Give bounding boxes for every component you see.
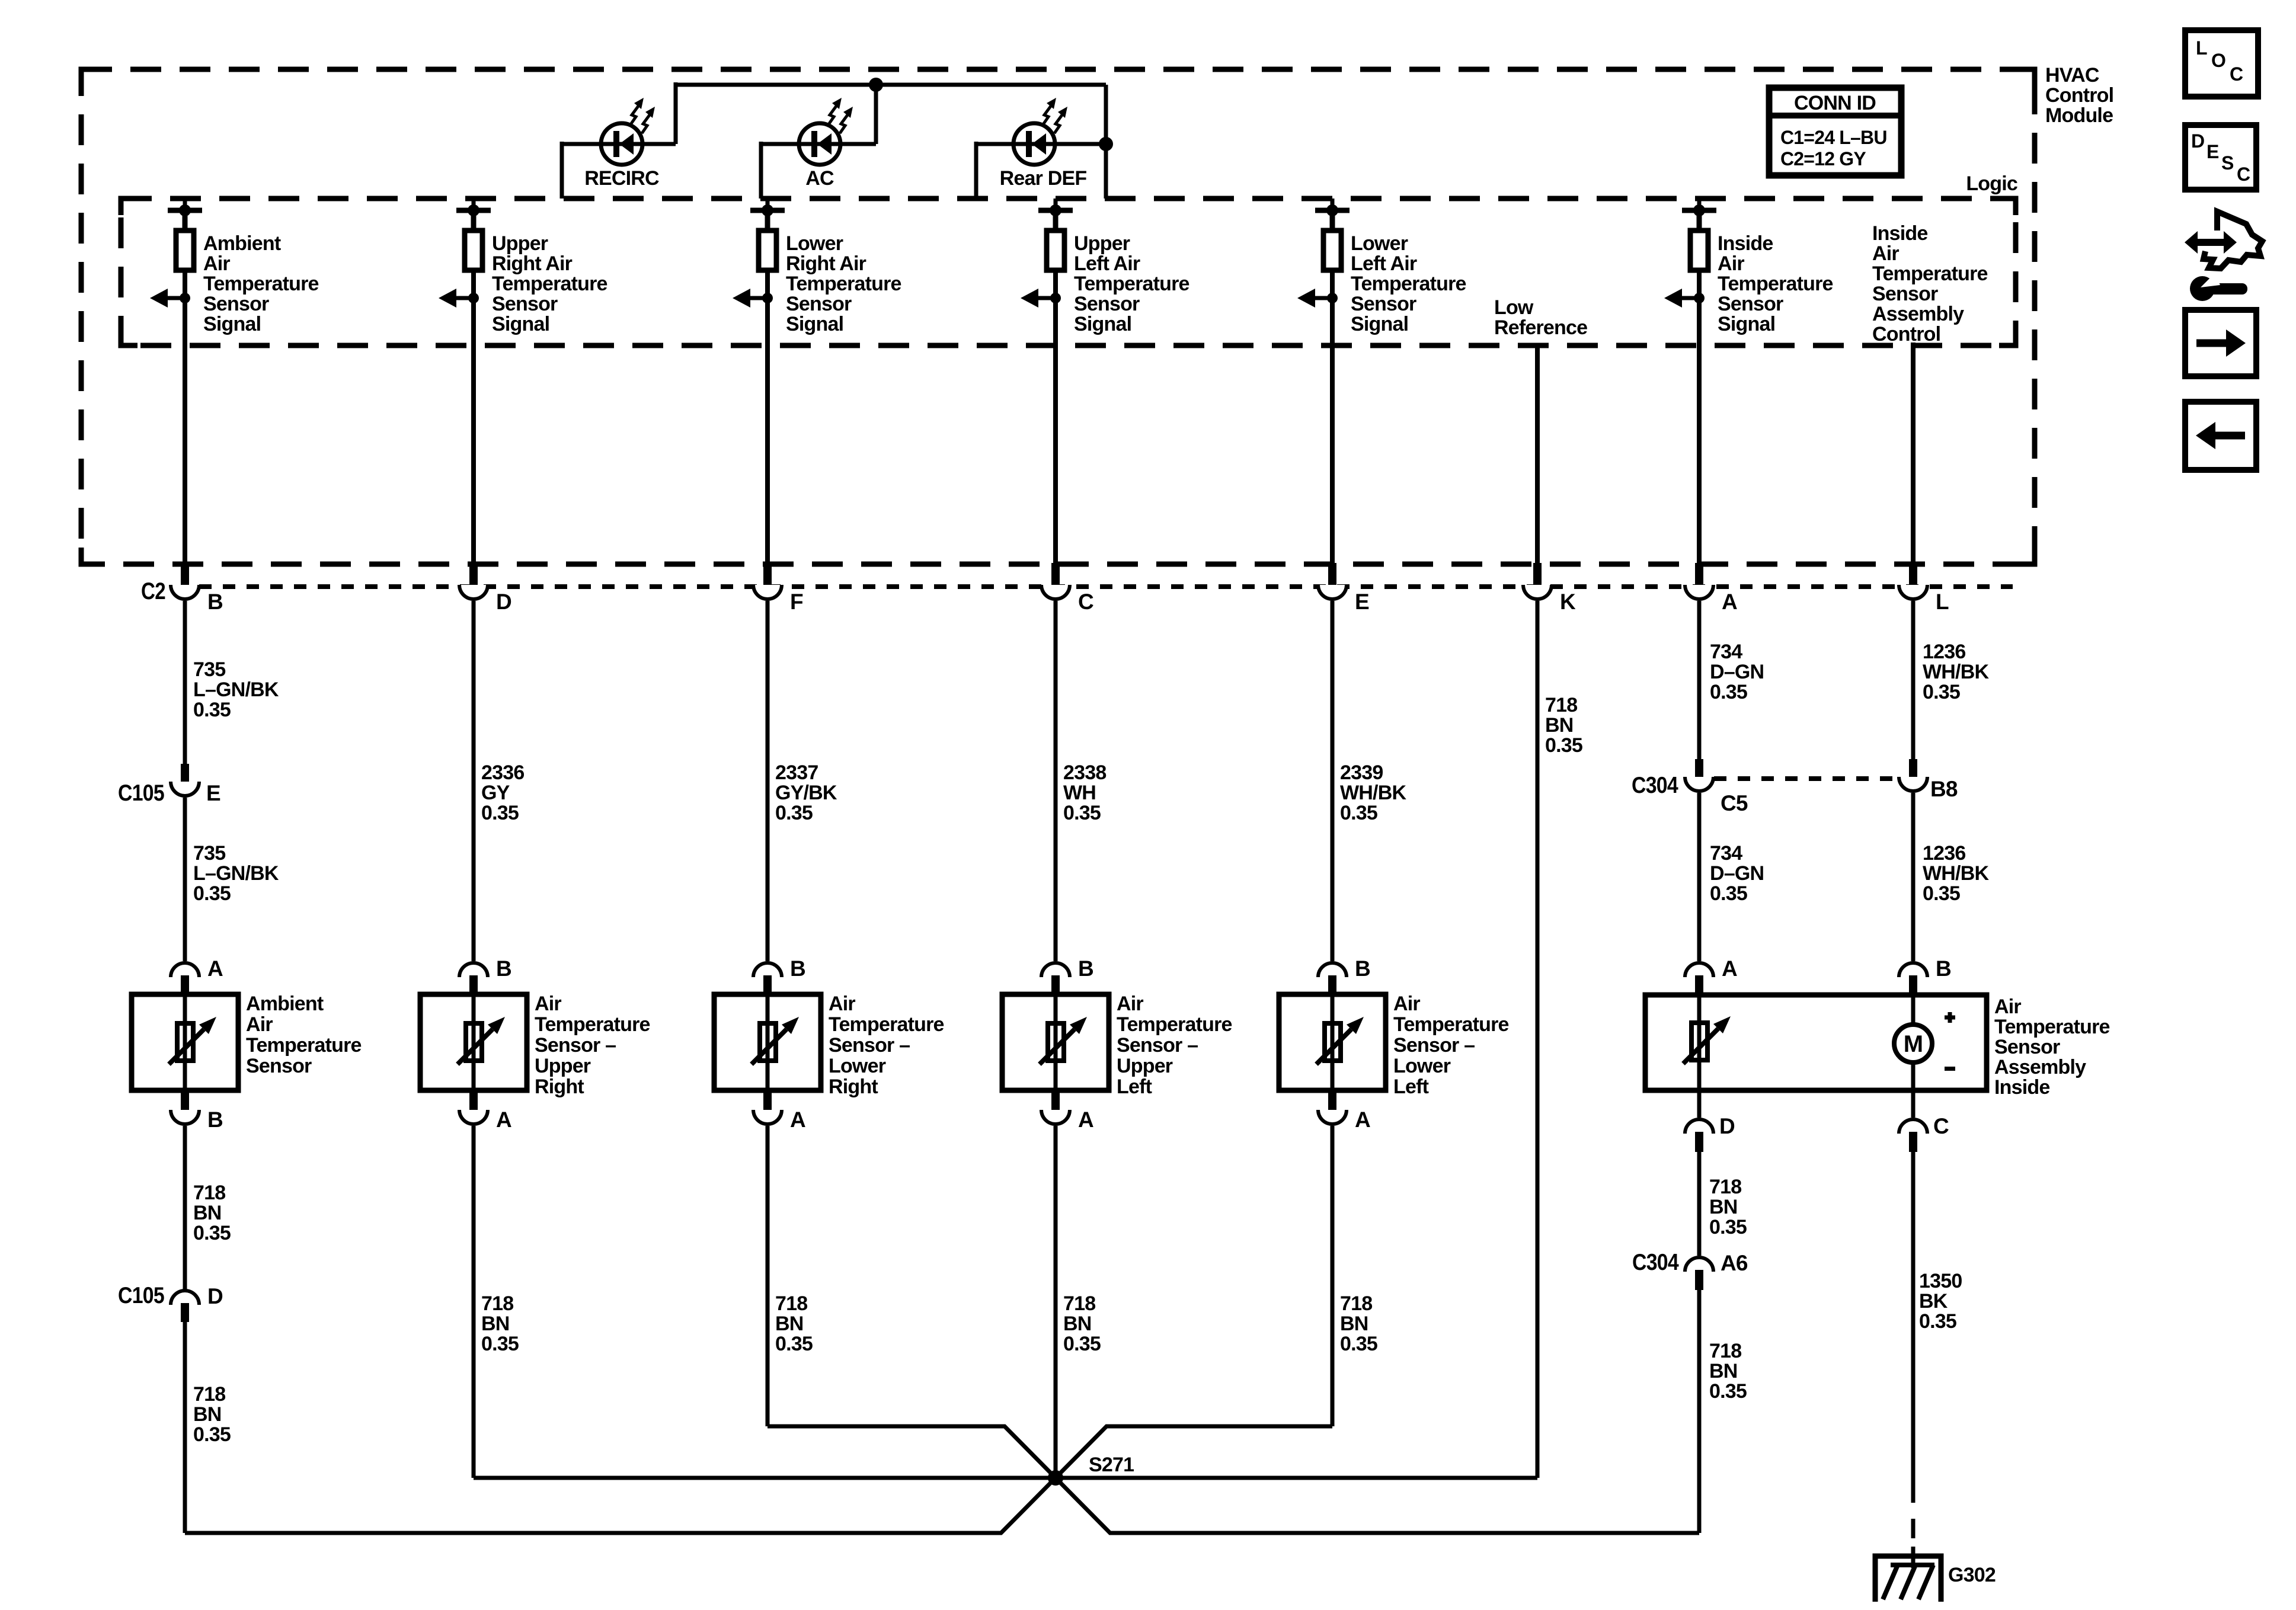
svg-text:Sensor: Sensor <box>1718 293 1783 315</box>
assembly pin C connector <box>1899 1090 1949 1152</box>
svg-text:C: C <box>2230 63 2243 85</box>
wire 1350 BK solid segment <box>1911 1152 1916 1483</box>
svg-text:BN: BN <box>1340 1313 1368 1335</box>
resistor Upper Right Air Temperature Sensor Signal <box>465 231 482 270</box>
AC label <box>805 167 834 190</box>
svg-text:Left: Left <box>1117 1076 1152 1098</box>
wire AC left drop <box>759 142 763 199</box>
junction dot AC riser / top rail <box>869 78 883 92</box>
splice S271 <box>1048 1470 1063 1486</box>
svg-text:Temperature: Temperature <box>1393 1013 1509 1036</box>
wire 1236 upper segment <box>1911 601 1916 759</box>
svg-text:Temperature: Temperature <box>1074 273 1189 295</box>
svg-text:BN: BN <box>481 1313 510 1335</box>
svg-text:Sensor –: Sensor – <box>535 1034 616 1057</box>
Air Temperature Sensor Lower Left box <box>1279 994 1386 1090</box>
svg-text:Inside: Inside <box>1872 222 1927 245</box>
svg-text:GY: GY <box>481 782 510 804</box>
wire 735 lower segment <box>183 798 187 961</box>
svg-text:0.35: 0.35 <box>1709 1380 1747 1403</box>
svg-text:WH/BK: WH/BK <box>1340 782 1406 804</box>
svg-text:Module: Module <box>2045 104 2113 127</box>
svg-text:Upper: Upper <box>1117 1055 1173 1077</box>
wire col2 to S271 (middle-left bus) <box>474 1476 1056 1480</box>
svg-text:O: O <box>2211 50 2225 71</box>
svg-text:Signal: Signal <box>1718 313 1775 335</box>
svg-text:0.35: 0.35 <box>1919 1310 1956 1333</box>
Air Temperature Sensor Assembly Inside pin B connector <box>1899 956 1951 996</box>
svg-text:735: 735 <box>193 842 225 865</box>
wire label 718 BN assembly upper <box>1709 1176 1747 1238</box>
thermistor symbol Air Temperature Sensor Upper Left <box>1040 1017 1087 1064</box>
forward arrow button <box>2185 310 2256 376</box>
wire inside Ambient Air Temperature Sensor <box>183 994 187 1090</box>
svg-text:Upper: Upper <box>535 1055 591 1077</box>
wire inside Air Temperature Sensor Upper Right <box>472 994 476 1090</box>
svg-text:0.35: 0.35 <box>1340 1333 1377 1355</box>
wire inside Air Temperature Sensor Lower Right <box>766 994 770 1090</box>
svg-text:1236: 1236 <box>1923 842 1965 865</box>
wire E column (logic box to module edge) <box>1330 345 1335 563</box>
svg-text:Signal: Signal <box>786 313 843 335</box>
wire label 718 BN (low reference) <box>1545 694 1582 757</box>
svg-text:2337: 2337 <box>775 761 818 784</box>
wire col3 to S271 (upper-left bus) <box>768 1426 1056 1478</box>
svg-text:S: S <box>2221 152 2234 174</box>
svg-text:718: 718 <box>1709 1176 1741 1198</box>
Logic dashed box <box>121 199 2016 345</box>
svg-text:718: 718 <box>193 1182 225 1204</box>
module pin F connector <box>753 563 803 614</box>
svg-text:Sensor: Sensor <box>246 1055 312 1077</box>
wire Rear DEF row <box>976 142 1106 146</box>
wire 734 upper segment <box>1697 601 1702 764</box>
svg-text:0.35: 0.35 <box>1063 802 1101 824</box>
svg-text:Sensor –: Sensor – <box>829 1034 910 1057</box>
svg-text:Temperature: Temperature <box>1994 1016 2110 1038</box>
svg-text:G302: G302 <box>1948 1564 1996 1586</box>
ground G302 symbol <box>1875 1547 1941 1602</box>
svg-text:E: E <box>2207 141 2219 162</box>
wire D column (logic box to module edge) <box>471 345 476 563</box>
Air Temperature Sensor Upper Right box <box>420 994 527 1090</box>
wire label 1350 BK <box>1919 1270 1962 1333</box>
svg-text:BN: BN <box>1709 1196 1738 1218</box>
svg-text:Upper: Upper <box>1074 232 1130 255</box>
resistor Upper Left Air Temperature Sensor Signal <box>1047 231 1064 270</box>
wire 718 BN column 4 to splice bus <box>1054 1126 1058 1478</box>
svg-text:0.35: 0.35 <box>193 1423 231 1446</box>
svg-text:Right: Right <box>535 1076 584 1098</box>
svg-text:L–GN/BK: L–GN/BK <box>193 862 279 885</box>
svg-text:Temperature: Temperature <box>246 1034 362 1057</box>
svg-text:Air: Air <box>535 993 561 1015</box>
svg-text:WH: WH <box>1063 782 1096 804</box>
diagnostic wrench icon <box>2185 212 2262 301</box>
svg-text:Assembly: Assembly <box>1872 303 1964 325</box>
wire C column (logic box to module edge) <box>1053 345 1058 563</box>
svg-text:Temperature: Temperature <box>492 273 607 295</box>
svg-text:Temperature: Temperature <box>1351 273 1466 295</box>
svg-text:2336: 2336 <box>481 761 524 784</box>
module pin A connector <box>1685 563 1737 614</box>
Air Temperature Sensor Lower Right pin B connector <box>753 956 805 994</box>
svg-text:Lower: Lower <box>786 232 843 255</box>
svg-text:Reference: Reference <box>1494 316 1587 339</box>
DESC button <box>2185 125 2256 190</box>
Upper Right Air Temperature Sensor Signal label <box>492 232 607 335</box>
wire label 2339 WH/BK <box>1340 761 1406 824</box>
wire col5 to S271 (upper-right bus) <box>1056 1426 1332 1478</box>
svg-text:2339: 2339 <box>1340 761 1383 784</box>
module pin E connector <box>1318 563 1369 614</box>
svg-text:S271: S271 <box>1089 1454 1134 1476</box>
svg-text:Lower: Lower <box>1393 1055 1451 1077</box>
svg-text:0.35: 0.35 <box>1710 681 1747 703</box>
resistor Ambient Air Temperature Sensor Signal <box>176 231 194 270</box>
svg-text:Air: Air <box>1994 996 2021 1018</box>
signal arrow Ambient Air Temperature Sensor Signal <box>150 289 190 308</box>
svg-text:0.35: 0.35 <box>1923 681 1960 703</box>
svg-text:Lower: Lower <box>1351 232 1408 255</box>
C304 connector dotted line <box>1714 776 1899 781</box>
svg-text:Rear DEF: Rear DEF <box>1000 167 1087 190</box>
thermistor symbol assembly inside <box>1683 1016 1731 1064</box>
svg-text:Sensor: Sensor <box>1872 283 1938 305</box>
svg-text:C105: C105 <box>118 780 164 806</box>
svg-text:Sensor: Sensor <box>786 293 852 315</box>
svg-text:Temperature: Temperature <box>786 273 901 295</box>
junction dot Rear DEF row / right drop <box>1099 137 1113 151</box>
svg-text:Sensor: Sensor <box>492 293 558 315</box>
G302 ground label <box>1948 1564 1996 1586</box>
svg-text:C2: C2 <box>141 578 165 604</box>
svg-text:F: F <box>790 590 803 614</box>
svg-text:C: C <box>1078 590 1093 614</box>
svg-text:B: B <box>496 956 511 981</box>
module pin K connector <box>1523 563 1576 614</box>
svg-text:Assembly: Assembly <box>1994 1056 2086 1078</box>
wire top rail <box>676 83 1106 87</box>
wire label 2336 GY <box>481 761 524 824</box>
Air Temperature Sensor Lower Left label <box>1393 993 1509 1098</box>
svg-text:0.35: 0.35 <box>193 882 231 905</box>
svg-text:Air: Air <box>1117 993 1143 1015</box>
svg-text:Inside: Inside <box>1994 1076 2049 1099</box>
motor M symbol <box>1894 1025 1932 1062</box>
S271 label <box>1089 1454 1134 1476</box>
LED indicator Rear DEF <box>1013 98 1067 165</box>
svg-text:Temperature: Temperature <box>1872 263 1988 285</box>
wire 735 upper segment <box>183 601 187 764</box>
svg-text:Sensor –: Sensor – <box>1117 1034 1198 1057</box>
svg-text:D–GN: D–GN <box>1710 661 1764 683</box>
wire below resistor Inside Air Temperature Sensor Signal <box>1697 270 1702 345</box>
svg-text:HVAC: HVAC <box>2045 64 2099 87</box>
svg-text:C: C <box>2237 164 2250 185</box>
svg-text:718: 718 <box>193 1383 225 1406</box>
svg-text:BN: BN <box>1545 714 1574 737</box>
module pin D connector <box>459 563 511 614</box>
wire L Assembly Control column (logic box to module edge) <box>1911 343 1916 563</box>
svg-text:0.35: 0.35 <box>1340 802 1377 824</box>
Air Temperature Sensor Upper Right pin B connector <box>459 956 511 994</box>
wire label 718 BN column 5 <box>1340 1292 1377 1355</box>
wire below resistor Ambient Air Temperature Sensor Signal <box>183 270 187 345</box>
svg-text:1236: 1236 <box>1923 641 1965 663</box>
svg-text:A: A <box>1355 1108 1370 1132</box>
inline connector C105 pin E <box>118 764 220 806</box>
svg-text:Right: Right <box>829 1076 878 1098</box>
svg-text:Sensor: Sensor <box>1994 1036 2060 1058</box>
wire label 1236 WH/BK lower <box>1923 842 1989 905</box>
wire AC right riser <box>874 85 878 144</box>
svg-text:K: K <box>1560 590 1576 614</box>
svg-text:D: D <box>2191 130 2204 152</box>
svg-text:A: A <box>1722 956 1737 981</box>
svg-text:Sensor: Sensor <box>1074 293 1140 315</box>
svg-text:D: D <box>496 590 511 614</box>
Upper Left Air Temperature Sensor Signal label <box>1074 232 1189 335</box>
svg-text:0.35: 0.35 <box>775 802 813 824</box>
Air Temperature Sensor Lower Right pin A connector <box>753 1090 805 1132</box>
svg-text:Air: Air <box>246 1013 273 1036</box>
svg-text:D: D <box>1719 1114 1735 1138</box>
wire A column (logic box to module edge) <box>1697 345 1702 563</box>
wire 2337 segment <box>766 601 770 961</box>
wire RECIRC left drop <box>560 142 564 199</box>
inline connector C304 pin A6 <box>1632 1250 1748 1290</box>
svg-text:718: 718 <box>481 1292 513 1315</box>
Lower Right Air Temperature Sensor Signal input circuit <box>750 199 785 231</box>
wire below resistor Lower Right Air Temperature Sensor Signal <box>765 270 770 345</box>
wire col1 to S271 (lower-left bus) <box>185 1478 1056 1533</box>
resistor Lower Left Air Temperature Sensor Signal <box>1323 231 1341 270</box>
inline connector C304 pin B8 <box>1899 759 1958 801</box>
Air Temperature Sensor Lower Right box <box>714 994 821 1090</box>
wire 718 BN column 3 to splice bus <box>766 1126 770 1426</box>
wire K Low Reference column (logic box to module edge) <box>1535 345 1540 563</box>
svg-text:Temperature: Temperature <box>1117 1013 1232 1036</box>
Upper Left Air Temperature Sensor Signal input circuit <box>1038 199 1073 231</box>
svg-text:Air: Air <box>1393 993 1420 1015</box>
wire 718 BN column 2 to splice bus <box>472 1126 476 1478</box>
svg-text:0.35: 0.35 <box>193 699 231 721</box>
svg-text:0.35: 0.35 <box>775 1333 813 1355</box>
svg-text:Low: Low <box>1494 296 1534 319</box>
wire below resistor Upper Left Air Temperature Sensor Signal <box>1053 270 1058 345</box>
svg-text:WH/BK: WH/BK <box>1923 862 1989 885</box>
svg-text:0.35: 0.35 <box>1923 882 1960 905</box>
svg-text:Ambient: Ambient <box>246 993 324 1015</box>
signal arrow Upper Right Air Temperature Sensor Signal <box>439 289 479 308</box>
minus terminal label <box>1945 1067 1955 1071</box>
signal arrow Lower Right Air Temperature Sensor Signal <box>733 289 773 308</box>
svg-text:BK: BK <box>1919 1290 1948 1313</box>
Low Reference label <box>1494 296 1587 339</box>
Lower Left Air Temperature Sensor Signal input circuit <box>1315 199 1350 231</box>
wire 1350 BK dashed segment <box>1911 1483 1916 1556</box>
Air Temperature Sensor Upper Right pin A connector <box>459 1090 511 1132</box>
svg-text:AC: AC <box>805 167 834 190</box>
Lower Right Air Temperature Sensor Signal label <box>786 232 901 335</box>
wire label 734 D-GN upper <box>1710 641 1764 703</box>
svg-text:1350: 1350 <box>1919 1270 1962 1292</box>
thermistor symbol Ambient Air Temperature Sensor <box>169 1017 216 1064</box>
Ambient Air Temperature Sensor Signal label <box>203 232 319 335</box>
back arrow button <box>2185 402 2256 470</box>
Lower Left Air Temperature Sensor Signal label <box>1351 232 1466 335</box>
svg-text:BN: BN <box>193 1202 222 1224</box>
Logic box corner marks <box>121 199 2016 345</box>
svg-text:D–GN: D–GN <box>1710 862 1764 885</box>
Inside Air Temperature Sensor Signal label <box>1718 232 1833 335</box>
svg-text:Left Air: Left Air <box>1351 252 1417 275</box>
svg-text:Sensor: Sensor <box>1351 293 1416 315</box>
LED indicator AC <box>799 98 853 165</box>
svg-text:Ambient: Ambient <box>203 232 281 255</box>
thermistor symbol Air Temperature Sensor Lower Right <box>752 1017 799 1064</box>
svg-text:L: L <box>1936 590 1949 614</box>
svg-text:CONN ID: CONN ID <box>1794 92 1876 114</box>
svg-text:Signal: Signal <box>1074 313 1131 335</box>
svg-text:0.35: 0.35 <box>1710 882 1747 905</box>
LED indicator RECIRC <box>601 98 655 165</box>
svg-text:0.35: 0.35 <box>1545 734 1582 757</box>
svg-text:Right Air: Right Air <box>786 252 866 275</box>
wire F column (logic box to module edge) <box>765 345 770 563</box>
wire label 2337 GY/BK <box>775 761 837 824</box>
svg-text:718: 718 <box>1545 694 1577 716</box>
svg-text:Air: Air <box>203 252 230 275</box>
svg-text:718: 718 <box>1709 1340 1741 1362</box>
svg-text:B: B <box>207 1108 223 1132</box>
Air Temperature Sensor Assembly Inside label <box>1994 996 2110 1099</box>
wire label 718 BN col1 lower <box>193 1383 231 1446</box>
svg-text:L–GN/BK: L–GN/BK <box>193 678 279 701</box>
wire label 1236 WH/BK upper <box>1923 641 1989 703</box>
svg-text:C105: C105 <box>118 1283 164 1308</box>
wire Rear DEF left drop <box>974 142 978 199</box>
wire label 718 BN col1 upper <box>193 1182 231 1244</box>
resistor Lower Right Air Temperature Sensor Signal <box>759 231 776 270</box>
Air Temperature Sensor Assembly Inside pin A connector <box>1685 956 1737 996</box>
wire 734 lower segment <box>1697 793 1702 961</box>
svg-text:B: B <box>1078 956 1093 981</box>
svg-text:734: 734 <box>1710 842 1742 865</box>
svg-text:0.35: 0.35 <box>1063 1333 1101 1355</box>
svg-text:Temperature: Temperature <box>535 1013 650 1036</box>
module pin L connector <box>1899 563 1949 614</box>
Air Temperature Sensor Upper Left pin A connector <box>1041 1090 1093 1132</box>
svg-text:B: B <box>1936 956 1951 981</box>
svg-text:Temperature: Temperature <box>203 273 319 295</box>
Logic label <box>1966 172 2017 195</box>
svg-text:735: 735 <box>193 658 225 681</box>
LOC button <box>2185 30 2258 97</box>
wire B column (logic box to module edge) <box>183 345 187 563</box>
svg-text:BN: BN <box>775 1313 804 1335</box>
svg-text:BN: BN <box>193 1403 222 1426</box>
Air Temperature Sensor Upper Left label <box>1117 993 1232 1098</box>
wire S271 to C304 A6 (lower-right bus) <box>1056 1478 1699 1533</box>
svg-text:C1=24 L–BU: C1=24 L–BU <box>1780 127 1887 148</box>
Ambient Air Temperature Sensor label <box>246 993 362 1077</box>
wire AC row <box>761 142 876 146</box>
svg-text:M: M <box>1904 1031 1923 1057</box>
svg-text:Right Air: Right Air <box>492 252 573 275</box>
Air Temperature Sensor Assembly Inside box <box>1645 995 1987 1090</box>
signal arrow Lower Left Air Temperature Sensor Signal <box>1297 289 1338 308</box>
Ambient Air Temperature Sensor pin B connector <box>171 1090 223 1132</box>
svg-text:Sensor –: Sensor – <box>1393 1034 1475 1057</box>
svg-text:L: L <box>2196 37 2207 59</box>
RECIRC label <box>584 167 659 190</box>
svg-text:718: 718 <box>1340 1292 1372 1315</box>
Air Temperature Sensor Lower Right label <box>829 993 944 1098</box>
thermistor symbol Air Temperature Sensor Upper Right <box>458 1017 505 1064</box>
svg-text:A6: A6 <box>1721 1251 1748 1275</box>
resistor Inside Air Temperature Sensor Signal <box>1690 231 1708 270</box>
svg-text:GY/BK: GY/BK <box>775 782 837 804</box>
wire label 718 BN assembly lower <box>1709 1340 1747 1403</box>
wire 2339 segment <box>1331 601 1335 961</box>
thermistor symbol Air Temperature Sensor Lower Left <box>1316 1017 1364 1064</box>
wire RECIRC right riser <box>674 82 678 144</box>
svg-text:A: A <box>1078 1108 1093 1132</box>
Air Temperature Sensor Lower Left pin A connector <box>1318 1090 1370 1132</box>
svg-text:2338: 2338 <box>1063 761 1106 784</box>
svg-text:0.35: 0.35 <box>193 1222 231 1244</box>
HVAC box corner marks <box>81 69 2035 564</box>
svg-text:C304: C304 <box>1632 773 1678 798</box>
wire inside Air Temperature Sensor Lower Left <box>1331 994 1335 1090</box>
wire 2338 segment <box>1054 601 1058 961</box>
inline connector C304 pin C5 <box>1632 759 1748 815</box>
svg-text:Air: Air <box>829 993 855 1015</box>
wire 1236 lower segment <box>1911 793 1916 961</box>
svg-text:Air: Air <box>1872 242 1899 265</box>
svg-text:BN: BN <box>1709 1360 1738 1382</box>
svg-text:Upper: Upper <box>492 232 548 255</box>
Inside Air Temperature Sensor Signal input circuit <box>1682 199 1716 231</box>
svg-text:Sensor: Sensor <box>203 293 269 315</box>
svg-text:718: 718 <box>775 1292 807 1315</box>
svg-text:A: A <box>496 1108 511 1132</box>
svg-text:Signal: Signal <box>492 313 549 335</box>
svg-text:RECIRC: RECIRC <box>584 167 659 190</box>
svg-text:A: A <box>1722 590 1737 614</box>
Upper Right Air Temperature Sensor Signal input circuit <box>456 199 491 231</box>
svg-text:Temperature: Temperature <box>829 1013 944 1036</box>
svg-text:Temperature: Temperature <box>1718 273 1833 295</box>
wire 718 Low Reference down to S271 <box>1536 601 1540 1478</box>
svg-text:WH/BK: WH/BK <box>1923 661 1989 683</box>
Inside Air Temperature Sensor Assembly Control label <box>1872 222 1988 345</box>
svg-text:0.35: 0.35 <box>481 802 519 824</box>
CONN ID table <box>1769 88 1901 175</box>
wire inside assembly left <box>1697 995 1702 1090</box>
svg-text:C5: C5 <box>1721 791 1748 815</box>
svg-text:C2=12 GY: C2=12 GY <box>1780 148 1866 169</box>
signal arrow Inside Air Temperature Sensor Signal <box>1664 289 1705 308</box>
wire 718 ambient sensor to splice <box>183 1126 187 1533</box>
wire below resistor Lower Left Air Temperature Sensor Signal <box>1330 270 1335 345</box>
Air Temperature Sensor Upper Left box <box>1002 994 1109 1090</box>
Rear DEF label <box>1000 167 1087 190</box>
wire RECIRC row <box>562 142 676 146</box>
svg-text:0.35: 0.35 <box>481 1333 519 1355</box>
